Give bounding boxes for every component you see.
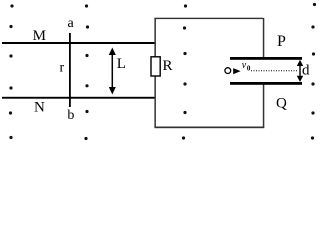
svg-text:L: L <box>117 56 126 72</box>
svg-text:M: M <box>33 28 46 44</box>
svg-text:r: r <box>60 61 65 76</box>
svg-text:b: b <box>67 108 74 123</box>
svg-text:0: 0 <box>247 65 251 73</box>
svg-text:Q: Q <box>276 96 287 112</box>
svg-text:d: d <box>302 63 310 79</box>
svg-text:P: P <box>277 33 286 50</box>
svg-text:R: R <box>163 58 173 74</box>
svg-text:N: N <box>34 100 45 116</box>
svg-text:a: a <box>68 16 75 31</box>
